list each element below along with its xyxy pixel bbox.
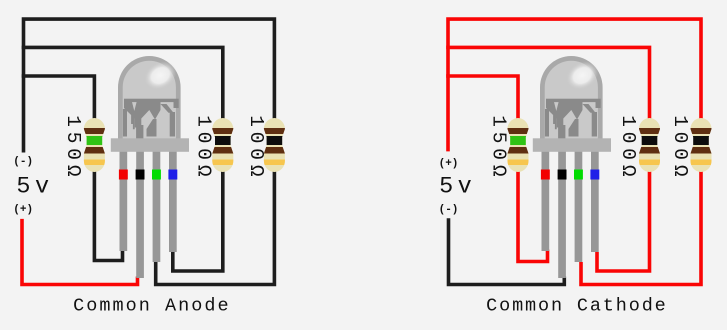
resistor R6 100ohm [690, 118, 712, 172]
svg-text:Common Cathode: Common Cathode [486, 296, 667, 317]
wire black: third rail to 150ohm resistor down to red leg [22, 76, 123, 261]
resistor R5 100ohm [639, 118, 661, 172]
svg-text:(-): (-) [439, 204, 459, 216]
RGB LED U2 [533, 56, 611, 278]
wire black: negative terminal + top rail to far 100ohm resistor down to green leg [24, 19, 275, 284]
svg-text:(+): (+) [439, 158, 459, 170]
wire red: positive supply to common anode leg [22, 219, 138, 285]
svg-text:100Ω: 100Ω [192, 115, 214, 181]
resistor R1 150ohm [83, 118, 105, 172]
svg-text:5v: 5v [16, 173, 53, 200]
wire black: second rail to near 100ohm resistor down to blue leg [22, 47, 223, 271]
svg-text:100Ω: 100Ω [245, 115, 267, 181]
svg-text:100Ω: 100Ω [669, 115, 691, 181]
svg-text:(-): (-) [13, 156, 33, 168]
wire red: positive terminal + top rail to far 100ohm resistor down to green leg [448, 19, 701, 284]
wire red: third rail to 150ohm resistor down to red leg [446, 76, 547, 262]
svg-text:(+): (+) [13, 204, 33, 216]
resistor R3 100ohm [263, 118, 285, 172]
svg-text:5v: 5v [439, 173, 476, 200]
svg-text:150Ω: 150Ω [488, 115, 510, 181]
svg-text:Common Anode: Common Anode [73, 296, 230, 317]
resistor R4 150ohm [507, 118, 529, 172]
wire black: negative supply to common cathode leg [449, 218, 565, 284]
resistor R2 100ohm [212, 118, 234, 172]
wire red: second rail to near 100ohm resistor down to blue leg [446, 47, 649, 271]
svg-text:100Ω: 100Ω [617, 115, 639, 181]
RGB LED U1 [111, 56, 189, 278]
svg-text:150Ω: 150Ω [62, 115, 84, 181]
